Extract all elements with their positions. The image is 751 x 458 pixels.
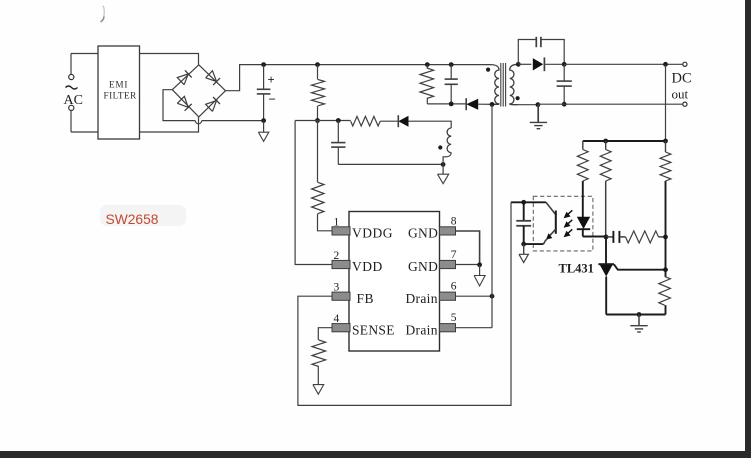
svg-text:GND: GND: [408, 259, 438, 274]
node aux polarity dot: [438, 145, 442, 149]
resistor bias R6: [605, 141, 607, 150]
wire negative rail to bulk cap: [202, 120, 264, 122]
node opto emitter junction: [521, 242, 526, 247]
diode clamp D6: [466, 99, 478, 110]
wire TL431 anode rail: [606, 314, 665, 316]
wire pin3 FB loop: [298, 202, 511, 405]
inductor aux winding: [447, 128, 451, 153]
wire feedback top bus: [583, 140, 666, 142]
resistor divider lower R9: [665, 237, 667, 277]
wire AC top to EMI: [71, 53, 98, 55]
svg-text:VDD: VDD: [352, 259, 383, 274]
pin 4 SENSE stub: [332, 324, 350, 332]
node secondary top junction: [516, 62, 521, 67]
resistor opto series R5: [582, 141, 584, 150]
transformer primary winding: [490, 65, 499, 105]
svg-text:GND: GND: [408, 226, 438, 241]
resistor aux R3: [351, 116, 381, 126]
capacitor VDD C2: [337, 121, 339, 143]
bridge rectifier arms: [172, 65, 199, 90]
node IC ground junction: [477, 262, 482, 267]
pin 5 Drain stub: [440, 324, 456, 332]
node AC terminal bottom: [69, 105, 74, 110]
opto LED emission arrows: [567, 210, 573, 215]
ground bulk cap: [263, 121, 265, 133]
wire pin6 to drain line: [456, 295, 493, 297]
node anode rail ground tap: [637, 312, 642, 317]
wire AC left vertical top: [70, 54, 72, 75]
node bulk cap bottom junction: [261, 118, 266, 123]
svg-text:2: 2: [334, 250, 340, 262]
node secondary bottom junction: [536, 102, 541, 107]
wire bridge right to top rail: [226, 65, 491, 91]
svg-text:Drain: Drain: [406, 291, 438, 306]
wire secondary to output diode: [518, 63, 531, 65]
transistor opto phototransistor: [546, 202, 555, 214]
wire clamp to drain node: [478, 103, 499, 105]
node DC+ feedback tap: [663, 62, 668, 67]
node TL431 cathode junction: [604, 235, 609, 240]
node DC out terminal -: [683, 102, 687, 106]
svg-text:VDDG: VDDG: [352, 226, 393, 241]
stray mark top: [103, 6, 105, 19]
svg-text:5: 5: [451, 312, 457, 324]
wire pin8 to pin7: [456, 231, 480, 265]
wire crossing hop: [195, 121, 201, 124]
ground IC pins: [479, 265, 481, 276]
node divider midpoint: [663, 235, 668, 240]
resistor compensation R8: [626, 231, 659, 243]
resistor startup R2: [317, 121, 319, 182]
wire snubber bottom: [427, 103, 466, 105]
pin 2 VDD stub: [332, 260, 350, 268]
node output cap top: [562, 62, 567, 67]
node snubber bottom junction: [449, 102, 454, 107]
svg-text:SW2658: SW2658: [106, 212, 159, 227]
svg-text:3: 3: [334, 282, 340, 294]
pin 8 GND stub: [440, 227, 456, 235]
node primary polarity dot: [486, 68, 490, 72]
node opto collector junction: [521, 200, 526, 205]
wire aux return: [338, 163, 443, 165]
transformer secondary winding: [510, 64, 519, 104]
IC U1 SW2658 body: [349, 212, 440, 352]
wire top cap right leg: [541, 40, 564, 65]
wire pin4 to sense resistor: [318, 328, 332, 340]
node feedback bus corner: [663, 139, 668, 144]
svg-text:7: 7: [451, 249, 457, 261]
wire opto emitter: [524, 243, 544, 245]
pin 3 FB stub: [332, 292, 350, 300]
resistor startup R1: [317, 65, 319, 80]
wire pin5 to drain line: [456, 327, 493, 329]
wire EMI to bridge top: [140, 54, 199, 65]
node bulk cap top: [261, 62, 266, 67]
wire opto collector: [511, 201, 546, 203]
node AC terminal top: [69, 74, 74, 79]
wire LED cathode to TL431 node: [583, 236, 606, 238]
wire diode to aux winding: [409, 121, 452, 128]
border right bar: [745, 0, 751, 458]
bridge diode D2 top-right: [206, 71, 217, 82]
pin 1 VDDG stub: [332, 227, 350, 235]
bridge diode D1 top-left: [177, 74, 188, 85]
diode output D7: [533, 58, 543, 70]
bridge diode D4 bottom-right: [206, 101, 217, 112]
capacitor diode snubber C4: [535, 37, 537, 47]
wire drain vertical: [491, 104, 493, 327]
svg-text:4: 4: [334, 313, 340, 325]
node feedback bus R6: [603, 139, 608, 144]
wire DC+ drop to divider: [665, 64, 667, 141]
svg-text:6: 6: [451, 280, 457, 292]
resistor snubber R4: [426, 65, 428, 68]
ground sense: [317, 367, 319, 385]
node ref junction: [663, 267, 668, 272]
svg-text:−: −: [269, 92, 276, 107]
capacitor bulk C1: [263, 65, 265, 90]
svg-text:FILTER: FILTER: [104, 91, 138, 101]
capacitor snubber C3: [450, 65, 452, 80]
transformer core: [500, 63, 502, 107]
wire AC left vertical bottom: [70, 111, 72, 133]
resistor divider upper R7: [665, 141, 667, 152]
wire DC+ to terminal: [564, 63, 683, 65]
svg-text:+: +: [268, 73, 275, 87]
wire pin7: [456, 264, 480, 266]
wire DC- to terminal: [538, 103, 683, 105]
svg-text:Drain: Drain: [406, 322, 438, 337]
node drain junction top: [490, 102, 495, 107]
node output cap bottom: [562, 102, 567, 107]
node aux return junction: [441, 162, 446, 167]
wire EMI bottom to bridge: [140, 117, 199, 132]
label SW2658 background: [100, 205, 186, 226]
capacitor opto filter C6: [523, 202, 525, 221]
wire bridge left return: [163, 90, 195, 121]
wire aux winding bottom: [443, 153, 451, 165]
AC source symbol: [66, 86, 78, 89]
svg-text:TL431: TL431: [559, 262, 594, 276]
wire VDD to pin2: [295, 121, 332, 265]
svg-text:1: 1: [334, 217, 340, 229]
node VDD junction: [315, 118, 320, 123]
svg-text:8: 8: [451, 215, 457, 227]
capacitor output C5: [563, 64, 565, 81]
diode aux D5: [398, 116, 408, 127]
wire AC bottom to EMI: [71, 131, 98, 133]
resistor sense R10: [312, 340, 326, 367]
diode opto LED: [582, 181, 584, 217]
wire TL431 ref: [614, 264, 666, 269]
svg-text:FB: FB: [357, 291, 375, 306]
node VDD cap top: [336, 118, 341, 123]
svg-text:out: out: [672, 87, 689, 102]
EMI filter block: [98, 46, 140, 139]
node startup resistor top: [315, 62, 320, 67]
wire secondary bottom: [518, 104, 538, 106]
wire VDD node horizontal: [295, 120, 351, 122]
ground aux winding: [442, 164, 444, 174]
node snubber C top: [449, 62, 454, 67]
wire R2 to pin1: [318, 214, 333, 231]
node secondary polarity dot: [516, 96, 520, 100]
ground TL431 earth: [638, 315, 640, 326]
border bottom bar: [0, 451, 751, 458]
svg-text:SENSE: SENSE: [352, 322, 395, 337]
pin 7 GND stub: [440, 260, 456, 268]
svg-text:DC: DC: [672, 71, 692, 87]
ground secondary earth: [537, 105, 539, 123]
bridge diode D3 bottom-left: [177, 96, 188, 107]
pin 6 Drain stub: [440, 292, 456, 300]
TL431 U3: [605, 237, 607, 264]
svg-text:EMI: EMI: [109, 80, 128, 90]
node DC out terminal +: [683, 62, 687, 66]
wire diode to output cap node: [545, 63, 564, 65]
wire top cap loop: [518, 40, 536, 65]
ground opto emitter: [523, 244, 525, 254]
optocoupler U2 box: [533, 196, 593, 251]
capacitor compensation C7: [606, 236, 613, 238]
node drain pin junction: [490, 294, 495, 299]
node snubber R top: [425, 62, 430, 67]
